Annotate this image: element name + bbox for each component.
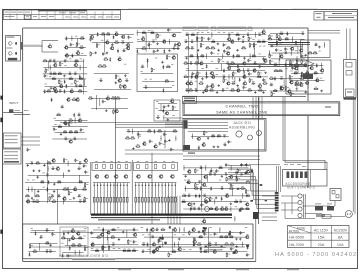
svg-text:HA-5000: HA-5000 bbox=[289, 236, 304, 240]
transistor Q31 bbox=[226, 51, 230, 55]
diode D35 bbox=[46, 187, 48, 191]
emitter junction bbox=[127, 185, 128, 186]
title block cell divider bbox=[23, 10, 25, 20]
resistor R9 bbox=[68, 77, 73, 80]
resistor R184 bbox=[198, 235, 203, 238]
diode D5 bbox=[64, 89, 66, 93]
resistor R15 bbox=[80, 36, 85, 39]
capacitor C40 bbox=[223, 49, 227, 53]
resistor R51 bbox=[241, 46, 246, 49]
svg-text:MODEL: MODEL bbox=[289, 230, 301, 234]
value label bbox=[205, 205, 207, 208]
transistor Q87 bbox=[136, 175, 140, 178]
capacitor C123 bbox=[200, 203, 204, 207]
transistor Q117 bbox=[192, 239, 196, 243]
diode D24 bbox=[191, 75, 193, 79]
capacitor C85 bbox=[127, 129, 131, 132]
wire bbox=[297, 66, 299, 74]
wire bbox=[162, 242, 164, 248]
wire bbox=[262, 216, 277, 218]
transistor Q11 bbox=[66, 97, 70, 101]
value label bbox=[172, 84, 174, 87]
transistor Q70 bbox=[68, 139, 72, 143]
value label bbox=[172, 114, 174, 117]
resistor R121 bbox=[125, 136, 130, 139]
transistor Q67 bbox=[201, 142, 205, 146]
value label bbox=[139, 135, 141, 138]
diode D20 bbox=[206, 64, 208, 68]
input connector J1 bbox=[6, 36, 21, 62]
value label bbox=[199, 27, 207, 30]
driver cell bbox=[172, 165, 175, 169]
capacitor C130 bbox=[45, 249, 49, 252]
capacitor C29 bbox=[185, 33, 189, 36]
transistor Q86 bbox=[124, 175, 128, 178]
wire bbox=[94, 88, 131, 90]
svg-text:SAME AS CHANNEL ONE: SAME AS CHANNEL ONE bbox=[216, 111, 268, 115]
value label bbox=[217, 53, 219, 56]
wire bbox=[228, 74, 230, 80]
wire bbox=[231, 74, 233, 80]
wire bbox=[163, 115, 165, 121]
resistor R149 bbox=[236, 177, 240, 182]
resistor R130 bbox=[63, 158, 67, 163]
transistor Q41 bbox=[242, 74, 246, 78]
resistor R71 bbox=[188, 88, 193, 91]
capacitor C137 bbox=[133, 240, 137, 244]
wire bbox=[185, 186, 187, 192]
svg-text:CHANNEL TWO: CHANNEL TWO bbox=[226, 104, 259, 109]
transistor Q80 bbox=[73, 187, 77, 191]
wire bbox=[291, 65, 324, 67]
resistor R58 bbox=[183, 61, 188, 64]
wire bbox=[26, 188, 87, 190]
transistor Q13 bbox=[90, 34, 94, 38]
junction bbox=[242, 195, 243, 196]
transistor Q75 bbox=[106, 96, 110, 100]
resistor R116 bbox=[74, 130, 79, 133]
diode D4 bbox=[44, 89, 46, 93]
title block cell divider bbox=[31, 10, 33, 20]
wire bbox=[262, 195, 277, 197]
capacitor C68 bbox=[270, 83, 274, 86]
resistor R98 bbox=[285, 86, 289, 91]
driver strip bbox=[134, 163, 178, 171]
resistor R126 bbox=[116, 96, 121, 99]
emitter junction bbox=[161, 185, 162, 186]
resistor R56 bbox=[236, 54, 241, 57]
value label bbox=[295, 87, 297, 90]
ground bbox=[68, 169, 71, 172]
resistor R1 bbox=[43, 59, 48, 62]
wire bbox=[241, 242, 243, 248]
resistor R135 bbox=[63, 187, 68, 190]
capacitor C83 bbox=[163, 105, 167, 109]
junction bbox=[296, 88, 297, 89]
value label bbox=[315, 203, 321, 206]
capacitor C139 bbox=[239, 231, 243, 235]
capacitor C140 bbox=[151, 235, 155, 238]
resistor R50 bbox=[226, 46, 231, 49]
resistor R144 bbox=[195, 168, 199, 173]
wire bbox=[60, 122, 183, 124]
wire bbox=[280, 166, 282, 192]
wire bbox=[39, 243, 41, 251]
transistor Q14 bbox=[114, 32, 118, 36]
diode D31 bbox=[198, 146, 200, 150]
capacitor C105 bbox=[32, 199, 36, 202]
capacitor C99 bbox=[46, 173, 50, 176]
value label bbox=[83, 235, 85, 238]
emitter resistor body bbox=[141, 197, 143, 202]
wire bbox=[28, 251, 56, 253]
ground bbox=[217, 42, 220, 45]
capacitor C14 bbox=[89, 38, 93, 42]
ground bbox=[31, 197, 34, 200]
capacitor C144 bbox=[142, 242, 146, 245]
emitter resistor body bbox=[126, 197, 128, 202]
ground bbox=[243, 57, 246, 60]
emitter resistor body bbox=[135, 197, 137, 202]
value label bbox=[226, 87, 228, 90]
transistor Q19 bbox=[126, 46, 130, 50]
value label bbox=[245, 226, 247, 229]
value label bbox=[182, 234, 184, 237]
wire bbox=[196, 32, 198, 92]
junction bbox=[71, 38, 72, 39]
value label bbox=[218, 31, 220, 34]
resistor R174 bbox=[108, 245, 112, 250]
capacitor C7 bbox=[44, 74, 48, 78]
wire bbox=[28, 174, 90, 176]
title block cell divider bbox=[54, 10, 56, 20]
ground bbox=[167, 118, 170, 121]
resistor R22 bbox=[96, 43, 100, 48]
transistor Q93 bbox=[229, 174, 233, 178]
wire bbox=[292, 79, 325, 81]
wire bbox=[137, 131, 139, 139]
transistor Q27 bbox=[177, 42, 181, 46]
capacitor C113 bbox=[245, 163, 249, 167]
resistor R112 bbox=[57, 125, 62, 128]
emitter resistor leg bbox=[97, 183, 99, 214]
value label bbox=[114, 16, 119, 19]
resistor R97 bbox=[273, 89, 278, 92]
diode D3 bbox=[65, 84, 67, 88]
value label bbox=[24, 109, 29, 112]
resistor R191 bbox=[168, 252, 172, 257]
transistor Q122 bbox=[212, 249, 216, 253]
wire bbox=[3, 112, 23, 114]
value label bbox=[32, 179, 34, 182]
jack connector block bbox=[184, 120, 188, 129]
resistor R95 bbox=[294, 83, 299, 86]
value label bbox=[263, 45, 265, 48]
emitter junction bbox=[100, 185, 101, 186]
transistor Q45 bbox=[226, 81, 230, 85]
resistor R64 bbox=[258, 71, 262, 76]
wire bbox=[149, 229, 151, 255]
wire bbox=[175, 136, 177, 142]
wire bbox=[281, 209, 298, 211]
table col line 2 bbox=[331, 226, 333, 248]
wire bbox=[144, 236, 247, 238]
offset trim sub-circuit bbox=[154, 100, 180, 121]
capacitor C93 bbox=[30, 161, 34, 164]
wire bbox=[65, 55, 87, 57]
emitter resistor leg bbox=[145, 183, 147, 214]
capacitor C107 bbox=[82, 199, 86, 202]
diode D33 bbox=[153, 129, 155, 133]
wire bbox=[186, 89, 266, 91]
capacitor C81 bbox=[64, 137, 68, 140]
wire bbox=[41, 45, 42, 47]
value label bbox=[209, 234, 211, 237]
funnel wire bbox=[228, 180, 277, 209]
junction bbox=[214, 201, 215, 202]
value label bbox=[145, 160, 148, 163]
resistor R61 bbox=[230, 61, 235, 64]
resistor R99 bbox=[290, 92, 294, 97]
wire bbox=[141, 251, 247, 253]
transistor Q108 bbox=[106, 230, 110, 234]
junction bbox=[50, 67, 51, 68]
wire bbox=[21, 136, 40, 138]
jack 2 bbox=[248, 135, 253, 140]
ground bbox=[254, 91, 257, 94]
wire bbox=[65, 244, 87, 246]
wire bbox=[270, 90, 305, 92]
wire bbox=[94, 73, 129, 75]
ground bbox=[178, 238, 181, 241]
value label bbox=[290, 70, 292, 73]
junction bbox=[269, 52, 270, 53]
capacitor C116 bbox=[224, 172, 228, 175]
wire bbox=[55, 131, 85, 133]
wire bbox=[269, 50, 271, 56]
transistor Q60 bbox=[308, 73, 312, 77]
title block cell divider bbox=[94, 11, 96, 19]
wire bbox=[230, 165, 232, 171]
wire bbox=[230, 206, 232, 212]
value label bbox=[118, 160, 121, 163]
transistor Q49 bbox=[236, 88, 240, 92]
resistor R108 bbox=[204, 131, 208, 136]
emitter resistor body bbox=[93, 197, 95, 202]
resistor R65 bbox=[183, 75, 188, 78]
value label bbox=[69, 11, 76, 14]
ground bbox=[68, 239, 71, 242]
wire bbox=[125, 149, 183, 151]
value label bbox=[59, 64, 61, 67]
ground bbox=[38, 169, 41, 172]
capacitor C95 bbox=[78, 161, 82, 164]
wire bbox=[26, 201, 86, 203]
resistor R134 bbox=[84, 183, 88, 188]
emitter resistor body bbox=[151, 197, 153, 202]
wire bbox=[55, 120, 88, 122]
resistor R166 bbox=[61, 236, 66, 239]
diode D25 bbox=[206, 75, 208, 79]
transistor Q23 bbox=[171, 55, 175, 59]
emitter resistor body bbox=[158, 197, 160, 202]
resistor R129 bbox=[47, 161, 52, 164]
transistor Q52 bbox=[299, 48, 303, 52]
resistor R10 bbox=[75, 79, 79, 84]
resistor R105 bbox=[313, 71, 318, 74]
emitter junction bbox=[135, 185, 136, 186]
junction bbox=[63, 175, 64, 176]
ground bbox=[218, 84, 221, 87]
diode D10 bbox=[97, 32, 99, 36]
value label bbox=[148, 234, 150, 237]
junction bbox=[179, 229, 180, 230]
capacitor C4 bbox=[49, 72, 53, 75]
transistor Q104 bbox=[202, 219, 206, 223]
wire bbox=[14, 114, 30, 116]
junction bbox=[79, 252, 80, 253]
value label bbox=[297, 163, 301, 166]
capacitor C21 bbox=[144, 85, 148, 88]
emitter resistor leg bbox=[155, 183, 157, 214]
resistor R74 bbox=[247, 88, 252, 91]
wire bbox=[165, 120, 183, 122]
capacitor C84 bbox=[156, 115, 160, 118]
value label bbox=[212, 27, 215, 30]
emitter junction bbox=[97, 185, 98, 186]
value label bbox=[207, 31, 209, 34]
ground bbox=[197, 49, 200, 52]
value label bbox=[113, 247, 115, 250]
resistor R123 bbox=[135, 144, 140, 147]
resistor R5 bbox=[52, 72, 57, 75]
ground bbox=[73, 197, 76, 200]
junction bbox=[169, 41, 170, 42]
wire bbox=[52, 138, 87, 140]
resistor R161 bbox=[239, 207, 244, 210]
junction bbox=[185, 188, 186, 189]
ground bbox=[236, 84, 239, 87]
wire bbox=[283, 79, 285, 87]
junction bbox=[231, 167, 232, 168]
resistor R4 bbox=[45, 68, 49, 73]
resistor R18 bbox=[72, 98, 77, 101]
wire bbox=[79, 65, 81, 71]
diode D6 bbox=[65, 36, 67, 40]
capacitor C49 bbox=[246, 69, 250, 72]
value label bbox=[231, 31, 233, 34]
diode D34 bbox=[48, 180, 50, 184]
resistor R46 bbox=[185, 46, 190, 49]
driver cell bbox=[103, 165, 106, 169]
wire bbox=[173, 242, 175, 248]
diode D42 bbox=[190, 207, 192, 211]
ground bbox=[193, 202, 196, 205]
diode D49 bbox=[146, 228, 148, 232]
title block cell divider bbox=[62, 11, 64, 19]
wire bbox=[62, 252, 83, 254]
junction bbox=[175, 138, 176, 139]
capacitor C23 bbox=[148, 43, 152, 47]
capacitor C59 bbox=[243, 86, 247, 90]
resistor R81 bbox=[276, 41, 280, 46]
wire bbox=[141, 73, 174, 75]
capacitor C5 bbox=[68, 72, 72, 75]
driver cell bbox=[95, 165, 98, 169]
ground bbox=[168, 139, 171, 142]
ground bbox=[220, 245, 223, 248]
wire bbox=[188, 76, 268, 78]
wire bbox=[297, 46, 299, 54]
ground bbox=[217, 49, 220, 52]
wire bbox=[91, 250, 139, 252]
value label bbox=[295, 49, 297, 52]
diode D43 bbox=[35, 231, 37, 235]
capacitor C62 bbox=[284, 47, 288, 51]
svg-text:INPUT: INPUT bbox=[9, 101, 18, 105]
jack board inner bbox=[184, 120, 264, 150]
value label bbox=[317, 16, 321, 19]
upper dark rail bbox=[268, 42, 310, 44]
wire bbox=[145, 33, 147, 52]
resistor R137 bbox=[25, 194, 30, 197]
transistor Q20 bbox=[117, 57, 121, 61]
wire bbox=[185, 55, 266, 57]
shielded cable bbox=[21, 45, 42, 47]
resistor R83 bbox=[269, 53, 273, 58]
wire bbox=[201, 166, 203, 211]
transistor Q109 bbox=[100, 232, 104, 236]
wire bbox=[179, 227, 181, 233]
output bus bar 2 bbox=[91, 217, 232, 219]
transistor Q89 bbox=[159, 175, 163, 178]
capacitor C111 bbox=[225, 163, 229, 167]
wire bbox=[160, 104, 162, 112]
capacitor C71 bbox=[300, 74, 304, 78]
value label bbox=[65, 16, 70, 19]
value label bbox=[61, 242, 63, 245]
resistor R2 bbox=[60, 62, 64, 67]
resistor R125 bbox=[111, 96, 116, 99]
ground bbox=[60, 133, 63, 136]
resistor R89 bbox=[274, 69, 279, 72]
capacitor C2 bbox=[52, 59, 56, 62]
wire bbox=[107, 235, 109, 241]
transistor Q22 bbox=[122, 84, 126, 88]
value label bbox=[155, 107, 157, 110]
svg-text:10A: 10A bbox=[337, 243, 344, 247]
diode D47 bbox=[62, 253, 64, 257]
title block cell divider bbox=[38, 10, 40, 20]
wire bbox=[149, 42, 151, 50]
net label cell bbox=[211, 27, 216, 31]
wire bbox=[89, 33, 134, 35]
wire bbox=[137, 41, 178, 43]
svg-text:AC 115V: AC 115V bbox=[314, 228, 329, 232]
relay contacts bbox=[332, 191, 335, 194]
wire bbox=[183, 165, 185, 171]
transistor Q62 bbox=[295, 80, 299, 84]
PSU wires 2 bbox=[305, 213, 322, 215]
junction bbox=[211, 34, 212, 35]
junction bbox=[63, 201, 64, 202]
wire bbox=[254, 32, 256, 38]
resistor R45 bbox=[261, 40, 266, 43]
transistor Q88 bbox=[147, 175, 151, 178]
funnel wire bbox=[228, 173, 277, 200]
speaker terminals bbox=[344, 60, 357, 98]
value label bbox=[156, 100, 158, 103]
